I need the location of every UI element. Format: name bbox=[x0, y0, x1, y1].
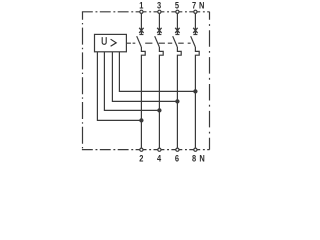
svg-text:2: 2 bbox=[139, 152, 143, 163]
svg-text:N: N bbox=[199, 152, 204, 163]
svg-text:1: 1 bbox=[139, 0, 143, 11]
svg-text:8: 8 bbox=[192, 152, 196, 163]
svg-text:3: 3 bbox=[157, 0, 161, 11]
svg-text:4: 4 bbox=[157, 152, 161, 163]
svg-text:N: N bbox=[199, 0, 204, 11]
svg-text:5: 5 bbox=[175, 0, 179, 11]
svg-text:6: 6 bbox=[175, 152, 179, 163]
svg-text:7: 7 bbox=[192, 0, 196, 11]
